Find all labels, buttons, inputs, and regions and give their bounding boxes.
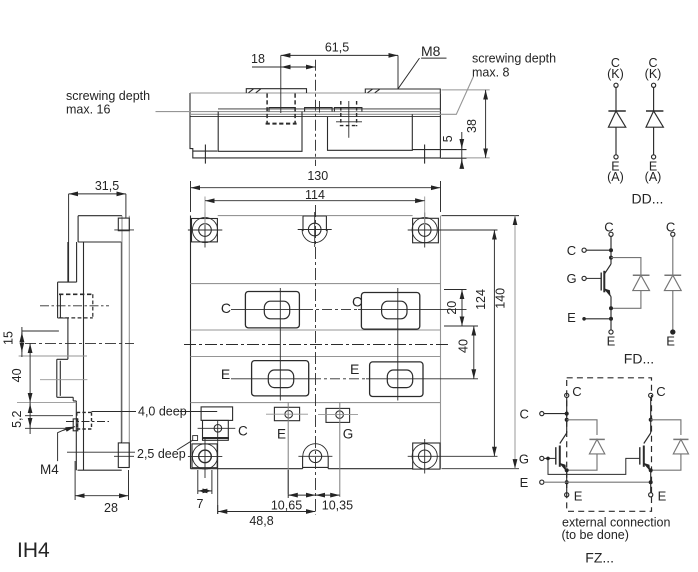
screw hole A axis [280,55,282,113]
svg-text:C: C [656,384,665,399]
terminal G ext (FZ) [540,456,544,460]
leader 4,0 deep [92,411,218,413]
side view mounting boss [118,218,129,231]
svg-text:20: 20 [445,301,459,315]
svg-text:E: E [607,333,616,348]
pocket pad C [334,108,362,112]
M4 leader [58,428,69,461]
wire collector T3 (FZ) [650,398,652,434]
side view centerline [25,342,134,344]
external connection dashed box [567,378,652,512]
terminal E2 (FZ) [649,493,653,497]
svg-text:E: E [350,361,359,377]
svg-text:max. 8: max. 8 [472,66,510,80]
wire diode branch (FD) [611,258,641,309]
terminal block E2 [370,362,423,397]
wire C left (FD) [586,249,611,251]
svg-text:C: C [567,243,576,258]
terminal pad top left [246,89,306,93]
plan view bottom edge [191,468,441,470]
svg-text:15: 15 [2,331,16,345]
plan view horizontal centerline [184,344,448,346]
aux terminal C assembly [193,407,236,441]
dim 31,5 [69,194,126,282]
svg-text:(A): (A) [645,170,662,184]
transistor T1 IGBT (FD) [586,264,611,297]
svg-text:40: 40 [457,339,471,353]
svg-text:124: 124 [474,289,488,310]
wire emitter T3 (FZ) [650,470,652,493]
dim 20 [444,290,478,327]
wire emitter T2 (FZ) [566,470,568,493]
node emitter T3 (FZ) [649,468,653,472]
terminal E bottom (FD) [609,330,613,334]
svg-text:screwing depth: screwing depth [472,52,556,66]
aux terminal G [326,408,350,422]
dim extension 124 [442,230,498,456]
svg-text:E: E [221,366,230,382]
side view screw hole dashed lower M4 [77,412,92,429]
top view top surface [190,92,440,94]
wire diode branch T3 (FZ) [651,420,681,470]
svg-text:40: 40 [10,368,24,382]
svg-text:G: G [343,427,354,442]
svg-text:5: 5 [441,135,455,142]
mounting lug top-right [412,217,438,242]
svg-text:10,35: 10,35 [322,499,353,513]
svg-text:(A): (A) [607,170,624,184]
terminal axis left [279,288,281,401]
dim 61,5 [281,54,398,56]
M8 leader [398,58,447,89]
dim 40 plan [473,326,475,379]
wire E bus (FZ) [544,481,651,483]
terminal C top (FD) [609,232,613,236]
node C1 (FZ) [565,412,569,416]
svg-text:7: 7 [197,497,204,511]
dim 15 [22,327,59,357]
svg-text:38: 38 [465,119,479,133]
terminal nut C2 [382,301,407,319]
svg-text:M4: M4 [40,462,59,477]
terminal C1 (FZ) [565,393,569,397]
aux terminal G axis [339,403,341,497]
side view bottom foot [118,443,129,468]
hole crosshairs [188,212,442,248]
svg-text:140: 140 [494,288,508,309]
svg-text:114: 114 [305,188,325,202]
svg-text:28: 28 [104,501,118,515]
terminal nut C1 [264,301,289,319]
plan view right edge [440,216,442,469]
svg-text:M8: M8 [421,43,441,59]
svg-text:18: 18 [251,52,265,66]
svg-text:E: E [520,475,529,490]
pocket pad B [305,108,333,112]
svg-text:C: C [238,424,248,439]
seam line lower [190,116,440,118]
pad axis mark [319,101,321,113]
left foot [193,150,218,152]
transistor T2 IGBT (FZ) [556,433,567,471]
svg-text:G: G [566,271,576,286]
terminal C left (FD) [582,248,586,252]
svg-text:screwing depth: screwing depth [66,89,150,103]
dim 40 side [29,343,31,402]
diode D1 (DD) [608,83,625,159]
svg-text:DD...: DD... [632,191,664,207]
wire E left (FD) [584,318,611,320]
dim 124 [493,230,495,456]
node emitter (FD) [609,306,613,310]
dim 5 top view [440,157,466,159]
wire main collector (FD) [610,236,612,264]
pocket pad A [269,108,295,112]
svg-text:C: C [520,406,529,421]
mounting lug top-mid [302,216,327,243]
seam line leader to screwing depth 8 [190,77,473,115]
svg-text:E: E [658,488,667,503]
svg-text:C: C [666,219,675,234]
svg-text:4,0 deep: 4,0 deep [138,405,187,419]
diode D6 (FZ) [673,438,688,440]
seam line baseplate [156,111,441,113]
terminal block C2 [361,293,419,330]
wire G to T3 gate (FZ) [548,458,640,474]
node emitter T2 (FZ) [565,468,569,472]
terminal C ext (FZ) [540,412,544,416]
recess left [218,112,302,152]
wire C ext (FZ) [544,413,567,415]
side view seam gray [17,356,87,403]
dim 10,65 [287,470,289,498]
seam line [218,108,440,110]
terminal block C1 [245,292,299,328]
dim 18 [281,66,316,68]
wire collector T2 (FZ) [566,398,568,434]
foot hole mark right [424,145,426,164]
svg-text:(to be done): (to be done) [562,528,629,542]
svg-text:IH4: IH4 [17,539,50,562]
terminal axis right [397,288,399,401]
svg-text:C: C [572,384,581,399]
svg-text:C: C [221,300,231,316]
foot hole mark left [204,145,206,164]
E row crosshair [231,378,478,380]
svg-text:C: C [604,219,613,234]
mounting lug bottom-right [412,443,440,469]
terminal nut E2 [387,370,412,388]
diode D5 (FZ) [589,438,604,440]
node C2 (FZ) [649,418,653,422]
aux terminal E axis [287,403,289,494]
terminal G (FD) [582,276,586,280]
dim 5,2 [25,403,73,434]
aux terminal E [274,407,299,420]
terminal block E1 [252,361,309,396]
C row crosshair [231,308,467,310]
side view aux pad [73,419,78,431]
screw hole B dashed [340,101,358,126]
terminal E1 (FZ) [565,493,569,497]
svg-text:(K): (K) [607,67,624,81]
svg-text:G: G [519,452,529,467]
svg-text:FZ...: FZ... [585,550,614,566]
diode D4 separate (FD) [664,232,681,334]
svg-text:FD...: FD... [624,350,654,366]
right foot [412,149,466,151]
dim 38 [442,90,490,158]
side view E row mark [40,379,87,381]
svg-text:E: E [277,427,286,442]
dim extension holes 114 [205,197,425,226]
screw hole B axis [336,101,362,138]
mounting lug top-left [192,217,218,242]
svg-text:2,5 deep: 2,5 deep [137,447,186,461]
terminal E ext (FZ) [540,480,544,484]
dim 130 [191,181,441,212]
top view body outline [190,93,440,158]
svg-text:(K): (K) [645,67,662,81]
dim 48,8 [217,505,219,514]
screw hole A dashed [267,94,295,125]
wire G (FZ) [544,457,556,459]
side view housing outline [57,216,122,471]
side view screw hole dashed upper [59,293,93,295]
terminal E left (FD) [582,317,586,321]
dim 28 [75,461,128,500]
svg-text:max. 16: max. 16 [66,103,111,117]
terminal C2 (FZ) [649,393,653,397]
plan view left edge [190,216,192,469]
svg-text:61,5: 61,5 [325,41,349,55]
side view baseplate [122,216,129,468]
node G (FZ) [546,457,550,461]
wire emitter (FD) [610,297,612,331]
module centerline top view [315,60,317,166]
plan view separator lines [191,284,441,403]
svg-text:E: E [567,310,576,325]
svg-text:C: C [352,294,362,310]
node collector (FD) [609,248,613,252]
svg-text:48,8: 48,8 [249,514,273,528]
svg-text:E: E [574,488,583,503]
diode D2 (DD) [646,83,663,159]
mounting lug bottom-mid [303,444,329,469]
svg-text:5,2: 5,2 [10,410,24,427]
dim 10,35 [316,494,340,496]
svg-text:130: 130 [307,169,328,183]
terminal pad top right [365,89,440,93]
svg-text:E: E [666,333,675,348]
terminal nut E1 [268,370,293,388]
dim 114 [205,200,425,202]
recess right [328,114,413,150]
diode D3 freewheel (FD) [633,274,650,276]
dim 7 [198,470,212,494]
plan view vertical centerline [315,205,317,515]
transistor T3 IGBT (FZ) [640,433,651,471]
leader 2,5 deep [67,440,193,452]
svg-text:31,5: 31,5 [95,179,119,193]
wire diode branch T2 (FZ) [567,420,597,470]
svg-text:10,65: 10,65 [271,499,302,513]
aux terminal C axis [217,420,219,514]
mounting lug bottom-left [192,444,218,469]
dim 140 [442,216,520,469]
plan view top edge [218,215,413,217]
